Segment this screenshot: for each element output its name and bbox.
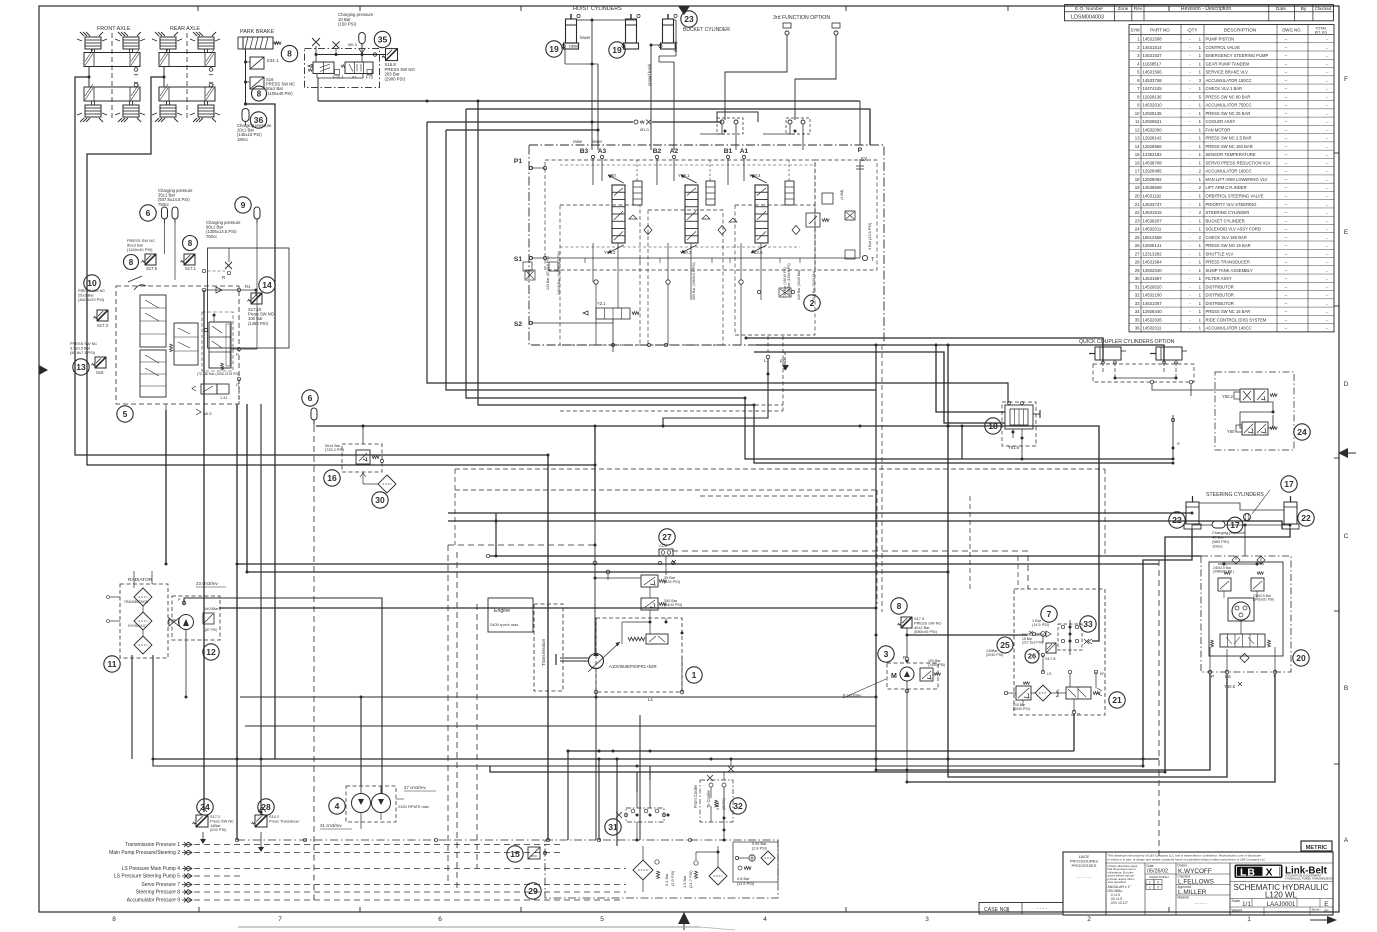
bucket cylinder (item 23) (659, 14, 677, 49)
hoist cylinder right (item 19) (622, 14, 640, 49)
item balloon 25 (997, 637, 1013, 653)
svg-text:DISTRIBUTOR: DISTRIBUTOR (1206, 301, 1234, 306)
svg-text:2: 2 (1199, 235, 1202, 240)
svg-text:1: 1 (1199, 268, 1202, 273)
solenoid valve S34.1 (250, 57, 264, 69)
svg-text:ACCUMULATOR 140CC: ACCUMULATOR 140CC (1206, 326, 1252, 331)
svg-text:(4400 PSI): (4400 PSI) (664, 603, 683, 607)
svg-text:19: 19 (612, 45, 622, 55)
pump control spool (646, 634, 668, 644)
svg-text:230 Bar (190±5 PS): 230 Bar (190±5 PS) (787, 263, 791, 295)
svg-text:1: 1 (1199, 37, 1202, 42)
item balloon 19 (609, 42, 625, 58)
front axle beam bottom (84, 87, 140, 101)
wire L port return (663, 359, 768, 426)
svg-text:31 cm3/rev: 31 cm3/rev (320, 823, 343, 828)
svg-text:11: 11 (1135, 119, 1140, 124)
svg-text:GEAR PUMP TANDEM: GEAR PUMP TANDEM (1206, 61, 1250, 66)
quick coupler wires (1150, 380, 1153, 383)
svg-text:--: -- (1285, 78, 1288, 83)
svg-text:-: - (1189, 127, 1191, 132)
svg-text:HYDRAULIC TURBO TRANSMISSION: HYDRAULIC TURBO TRANSMISSION (1286, 876, 1333, 880)
main pump circle (589, 654, 604, 669)
P port riser (859, 101, 861, 145)
scan page edge artifact (238, 926, 700, 928)
svg-text:B2: B2 (653, 148, 662, 155)
wire pump suction (219, 607, 876, 609)
svg-text:FRONT AXLE: FRONT AXLE (97, 26, 131, 32)
item balloon 7 (1041, 606, 1057, 622)
steering cylinder wires (1199, 503, 1284, 510)
wire ride control out (317, 78, 319, 101)
return filter (633, 860, 653, 880)
svg-text:EMERGENCY STEERING PUMP: EMERGENCY STEERING PUMP (1206, 53, 1269, 58)
aux valve spool (751, 175, 768, 253)
svg-text:(2030 PSI): (2030 PSI) (986, 653, 1003, 657)
svg-text:--: -- (1326, 277, 1329, 281)
item balloon 17 (1281, 476, 1297, 492)
svg-text:Engine: Engine (494, 608, 510, 614)
svg-text:-: - (1189, 61, 1191, 66)
wire steer stub (495, 513, 497, 556)
svg-text:1: 1 (1199, 86, 1202, 91)
svg-text:33: 33 (1135, 301, 1140, 306)
svg-text:730 Bar (190±5 PS): 730 Bar (190±5 PS) (783, 267, 787, 298)
svg-text:5: 5 (1199, 94, 1202, 99)
svg-text:-: - (1189, 235, 1191, 240)
pressure switch S17.5 steering (898, 617, 913, 628)
svg-text:-: - (1189, 111, 1191, 116)
CASE NO box (979, 903, 1063, 915)
svg-text:1: 1 (1199, 301, 1202, 306)
svg-text:LS Pressure Steering Pump 5: LS Pressure Steering Pump 5 (114, 874, 180, 880)
wire left return drop (547, 455, 549, 840)
svg-text:26: 26 (1135, 243, 1140, 248)
svg-text:T: T (871, 257, 875, 263)
svg-text:Checked: Checked (1315, 6, 1332, 11)
right border zone ticks (1334, 152, 1339, 154)
svg-text:lower: lower (592, 139, 603, 144)
svg-text:-: - (1189, 309, 1191, 314)
svg-text:--: -- (1285, 70, 1288, 75)
svg-text:12: 12 (206, 647, 216, 657)
svg-text:4: 4 (763, 916, 767, 923)
svg-text:-: - (1189, 177, 1191, 182)
svg-text:31: 31 (1135, 284, 1140, 289)
dashed gallery 1 (560, 404, 783, 406)
rear axle beam top (159, 53, 215, 67)
pilot dashed box (202, 312, 233, 371)
sump top rail (237, 839, 545, 841)
svg-text:6: 6 (146, 208, 151, 218)
wire right riser A (947, 345, 949, 572)
wire steer work R (448, 521, 1282, 529)
wire right drop (875, 345, 877, 770)
svg-text:12928135: 12928135 (1143, 111, 1163, 116)
rear axle beam bottom (159, 87, 215, 101)
fan motor boundary (172, 596, 220, 640)
svg-text:-: - (1189, 227, 1191, 232)
svg-text:3rd FUNCTION OPTION: 3rd FUNCTION OPTION (773, 15, 830, 21)
svg-text:7: 7 (1137, 86, 1140, 91)
wire sump feed 4 (636, 772, 638, 792)
svg-text:SERVICE BRAKE VLV: SERVICE BRAKE VLV (1206, 70, 1249, 75)
junction grid (1058, 624, 1082, 650)
dashed gallery vert2 (767, 336, 769, 352)
P port (237, 347, 240, 350)
svg-text:CONTROL VALVE: CONTROL VALVE (1206, 45, 1241, 50)
service brake valve boundary (116, 286, 239, 404)
svg-text:0.94 Bar: 0.94 Bar (752, 842, 767, 846)
svg-text:14531508: 14531508 (1143, 37, 1163, 42)
svg-text:-: - (1189, 103, 1191, 108)
wire sump feed 2 (598, 759, 600, 840)
svg-text:--: -- (1326, 302, 1329, 306)
svg-text:--: -- (1326, 269, 1329, 273)
svg-text:8: 8 (897, 601, 902, 611)
svg-text:Y50: Y50 (1227, 429, 1235, 434)
svg-text:--: -- (1285, 45, 1288, 50)
item balloon 3 (878, 646, 894, 662)
svg-text:-: - (1189, 218, 1191, 223)
svg-text:20: 20 (1135, 194, 1140, 199)
svg-text:510 Bar (3048 Ma): 510 Bar (3048 Ma) (812, 271, 816, 300)
svg-text:3: 3 (884, 649, 889, 659)
spool feed lines inside (592, 159, 594, 185)
priority circuit filter (1035, 685, 1051, 701)
wire brake drop 3 (260, 404, 262, 815)
wire servo drop (594, 426, 596, 520)
svg-text:X: X (1266, 867, 1273, 879)
svg-text:--: -- (1285, 326, 1288, 331)
wire return 2 (446, 130, 876, 390)
wire S17.2 drop (203, 290, 205, 812)
item balloon 8 (183, 236, 198, 251)
accumulator 6b (172, 207, 178, 223)
svg-text:-: - (1189, 185, 1191, 190)
svg-text:-: - (1189, 243, 1191, 248)
svg-text:ORBITROL STEERING VALVE: ORBITROL STEERING VALVE (1206, 194, 1264, 199)
junction dots (591, 63, 594, 66)
svg-text:14538708: 14538708 (1143, 160, 1163, 165)
svg-text:1: 1 (1199, 152, 1202, 157)
wire accumulator signal dashed (313, 426, 315, 844)
svg-text:--: -- (1285, 309, 1288, 314)
svg-text:WT. KG: WT. KG (1315, 31, 1328, 35)
svg-text:RADIATOR: RADIATOR (128, 577, 153, 583)
wire qc long 1 (745, 398, 1173, 459)
LBX Link-Belt logo (1235, 865, 1333, 881)
svg-text:Y2.1: Y2.1 (597, 301, 606, 306)
filter item 30 (378, 475, 396, 493)
wire radiator drain 1 (131, 655, 133, 759)
svg-text:E: E (1324, 901, 1329, 908)
svg-text:LAAJ0001: LAAJ0001 (1267, 901, 1296, 908)
svg-text:COOLER ASSY: COOLER ASSY (1206, 119, 1236, 124)
wire orifice bus right (652, 121, 722, 123)
anti-cavitation checks (594, 280, 598, 284)
svg-text:SERVO PRESS REDUCTION VLV: SERVO PRESS REDUCTION VLV (1206, 160, 1271, 165)
svg-text:26: 26 (1028, 652, 1036, 661)
svg-text:(1450 PSI): (1450 PSI) (248, 321, 269, 326)
svg-text:30: 30 (1135, 276, 1140, 281)
priority spool (1066, 687, 1091, 699)
svg-text:--: -- (1285, 86, 1288, 91)
item balloon 12 (203, 644, 219, 660)
pressure switch S18 (92, 357, 107, 368)
pressure switch S17.1 (181, 254, 196, 265)
svg-text:Revision - Description: Revision - Description (1181, 6, 1232, 12)
svg-text:1: 1 (1199, 119, 1202, 124)
accumulator risers (164, 219, 166, 254)
svg-text:B3: B3 (580, 148, 589, 155)
brake valve mid body (174, 323, 198, 365)
svg-text:(1160±40 PSI): (1160±40 PSI) (127, 247, 153, 252)
svg-text:--: -- (1285, 169, 1288, 174)
svg-text:2: 2 (1199, 210, 1202, 215)
steering accumulator horizontal (1212, 521, 1225, 528)
legend arrows from switches (202, 832, 204, 843)
ride control valve box (305, 49, 380, 88)
svg-text:-: - (1189, 293, 1191, 298)
item balloon 8 (281, 45, 297, 61)
svg-text:PRESS SW NC 160 BAR: PRESS SW NC 160 BAR (1206, 144, 1253, 149)
svg-text:-: - (1189, 160, 1191, 165)
svg-text:23 cm3/rev: 23 cm3/rev (196, 581, 219, 586)
top center fold mark (678, 6, 690, 15)
svg-text:-: - (1189, 78, 1191, 83)
scale row (1230, 898, 1333, 900)
svg-text:15: 15 (510, 849, 520, 859)
svg-text:Y61.6: Y61.6 (1008, 445, 1020, 450)
reduction valve (1016, 686, 1031, 700)
svg-text:Weight: Weight (1232, 909, 1243, 913)
svg-text:By: By (1301, 6, 1307, 12)
svg-text:1/1: 1/1 (1242, 901, 1251, 908)
svg-text:DISTRIBUTOR: DISTRIBUTOR (1206, 293, 1234, 298)
svg-text:P: P (236, 352, 239, 357)
rear axle tire bottom (198, 105, 214, 117)
svg-text:12928495: 12928495 (1143, 169, 1163, 174)
svg-text:12928092: 12928092 (1143, 177, 1163, 182)
svg-text:750cc: 750cc (206, 234, 217, 239)
svg-text:--: -- (1326, 170, 1329, 174)
temperature sensor item 15 (528, 847, 540, 859)
svg-text:--: -- (1285, 119, 1288, 124)
revision table (1065, 5, 1334, 21)
svg-text:Rev: Rev (1134, 6, 1143, 11)
item balloon 19 (546, 41, 562, 57)
svg-text:1: 1 (1199, 284, 1202, 289)
svg-text:- - - - -: - - - - - (1277, 908, 1289, 913)
wire servo bus (316, 426, 1099, 641)
svg-text:RIDE CONTROL (DIS) SYSTEM: RIDE CONTROL (DIS) SYSTEM (1206, 317, 1267, 322)
svg-text:S17.5: S17.5 (146, 266, 158, 271)
svg-text:SUMP TANK ASSEMBLY: SUMP TANK ASSEMBLY (1206, 268, 1253, 273)
dashed region line 2 (1104, 469, 1106, 556)
svg-text:P: P (178, 598, 181, 602)
front axle breather (134, 68, 138, 72)
svg-text:--: -- (1326, 211, 1329, 215)
bucket cylinder wires (651, 44, 662, 46)
steering cylinder right (1282, 496, 1299, 529)
svg-text:--: -- (1285, 177, 1288, 182)
svg-text:--: -- (1326, 128, 1329, 132)
relief X symbol (225, 262, 232, 269)
svg-text:1: 1 (1199, 136, 1202, 141)
svg-text:Drawn: Drawn (1178, 864, 1187, 868)
svg-text:-QTY: -QTY (1187, 28, 1198, 33)
item balloon 13 (73, 359, 89, 375)
svg-text:(1450 PSI): (1450 PSI) (928, 663, 945, 667)
svg-text:1: 1 (1199, 276, 1202, 281)
wire mid return bus (245, 725, 876, 727)
item balloon 22 (1169, 512, 1185, 528)
pump relief (920, 668, 933, 681)
svg-text:2320 RPM'S max: 2320 RPM'S max (398, 804, 429, 809)
dashed gallery vert (782, 336, 784, 411)
svg-text:6: 6 (308, 393, 313, 403)
item balloon 22 (1298, 510, 1314, 526)
bypass relief (694, 871, 697, 879)
svg-text:14533747: 14533747 (1143, 202, 1163, 207)
front axle brake link (88, 67, 90, 88)
svg-text:1: 1 (1199, 127, 1202, 132)
check row squares (779, 288, 791, 297)
svg-text:14531515: 14531515 (1143, 210, 1163, 215)
svg-text:F75.1: F75.1 (333, 75, 344, 80)
svg-text:-: - (1189, 251, 1191, 256)
gear pump boundary (346, 786, 396, 822)
hydraulic cooler (134, 612, 152, 630)
rear axle tire bottom (160, 105, 176, 117)
svg-text:--: -- (1285, 276, 1288, 281)
3rd function connector B (832, 23, 840, 28)
front axle beam top (84, 53, 140, 67)
wire 18 link 2 (754, 352, 1005, 423)
svg-text:-: - (1189, 136, 1191, 141)
accumulator item 6 servo (311, 408, 317, 424)
svg-text:22: 22 (1301, 513, 1311, 523)
pump drive shaft (560, 657, 589, 659)
svg-text:1: 1 (1199, 61, 1202, 66)
svg-text:--: -- (1326, 112, 1329, 116)
svg-text:--: -- (1326, 161, 1329, 165)
svg-text:3: 3 (925, 916, 929, 923)
accumulator charge valve spool (209, 322, 231, 368)
svg-text:3 Bar: 3 Bar (716, 801, 720, 810)
svg-text:14: 14 (1135, 144, 1140, 149)
suction strainer (709, 867, 727, 885)
svg-text:--: -- (1326, 62, 1329, 66)
svg-text:PRESS SW NO 15 BAR: PRESS SW NO 15 BAR (1206, 243, 1251, 248)
svg-text:28: 28 (261, 802, 271, 812)
svg-text:-: - (1189, 301, 1191, 306)
item balloon 6 (140, 205, 156, 221)
svg-text:9: 9 (241, 200, 246, 210)
wire brake drop 4 (246, 404, 248, 572)
svg-text:12928136: 12928136 (1143, 94, 1163, 99)
item balloon 8 (124, 255, 139, 270)
svg-text:30: 30 (375, 495, 385, 505)
port stub circles (591, 155, 594, 158)
svg-text:lower: lower (580, 35, 591, 40)
wire qc branch drop (961, 426, 963, 459)
valve feed connectors (720, 120, 724, 124)
dashed region line 1 (455, 468, 1105, 470)
svg-text:14: 14 (262, 280, 272, 290)
svg-text:06: 06 (1324, 908, 1329, 913)
3rd function wires (725, 35, 787, 120)
svg-text:(2900 PSI): (2900 PSI) (385, 76, 406, 81)
brake pedal mark (128, 276, 142, 282)
wire servo pressure dashed h (448, 544, 595, 546)
METRIC box (1301, 841, 1332, 851)
svg-text:14533758: 14533758 (1143, 78, 1163, 83)
svg-text:R1: R1 (245, 284, 251, 289)
pressure regulator A (641, 575, 658, 587)
svg-text:DISTRIBUTOR: DISTRIBUTOR (1206, 284, 1234, 289)
svg-text:1: 1 (1199, 227, 1202, 232)
svg-text:L1: L1 (648, 697, 654, 702)
svg-text:-: - (1189, 70, 1191, 75)
svg-text:16: 16 (1135, 160, 1140, 165)
aux cooler (134, 636, 152, 654)
item balloon 8 (891, 598, 907, 614)
svg-text:6: 6 (438, 916, 442, 923)
svg-text:-: - (1189, 202, 1191, 207)
svg-text:7: 7 (278, 916, 282, 923)
svg-text:wise specified.: wise specified. (1108, 880, 1127, 884)
svg-text:M: M (891, 673, 897, 680)
wire qc supply 2 (756, 345, 1164, 362)
svg-text:(21.7 PSI): (21.7 PSI) (688, 870, 693, 888)
svg-text:11: 11 (108, 659, 117, 669)
sump tank boundary (545, 840, 778, 898)
svg-text:--: -- (1285, 160, 1288, 165)
svg-text:0.2 Bar: 0.2 Bar (664, 873, 669, 886)
svg-text:To Cooler: To Cooler (706, 789, 711, 808)
svg-text:(1100±40 PSI): (1100±40 PSI) (266, 91, 293, 96)
svg-text:Transmission: Transmission (541, 638, 546, 666)
brake spool group upper (140, 295, 166, 347)
svg-text:35: 35 (1135, 317, 1140, 322)
svg-text:05/26/02: 05/26/02 (1147, 869, 1168, 875)
bottom check diamond (1240, 654, 1249, 663)
svg-text:1: 1 (1199, 202, 1202, 207)
item balloon 31 (605, 819, 621, 835)
LBCE procedures cell (1063, 852, 1106, 915)
svg-text:S17.8: S17.8 (1045, 656, 1056, 661)
svg-text:14531057: 14531057 (1143, 301, 1163, 306)
svg-text:--: -- (1285, 152, 1288, 157)
svg-text:--: -- (1326, 104, 1329, 108)
svg-text:--: -- (1326, 252, 1329, 256)
svg-text:6: 6 (1137, 78, 1140, 83)
wire return 3 (466, 109, 745, 398)
svg-text:--: -- (1285, 301, 1288, 306)
svg-text:S1: S1 (514, 256, 522, 263)
svg-text:A10V063EP20FR1+52R: A10V063EP20FR1+52R (609, 664, 657, 669)
svg-text:--: -- (1285, 103, 1288, 108)
svg-text:-: - (1189, 119, 1191, 124)
dashed region line 7 (454, 469, 456, 545)
svg-text:1: 1 (1199, 111, 1202, 116)
svg-text:--: -- (1285, 227, 1288, 232)
item balloon 5 (117, 406, 133, 422)
svg-text:21: 21 (1112, 695, 1122, 705)
svg-text:E.O. Number: E.O. Number (1075, 6, 1103, 12)
